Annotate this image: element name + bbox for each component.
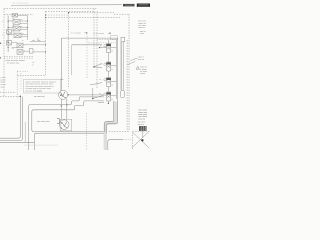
wire bus y12.7 [69,12,115,14]
svg-text:xxxx xx: xxxx xx [138,118,145,120]
wire K4 out [8,34,27,36]
node X center dot [141,139,143,141]
svg-text:xxxx xx: xxxx xx [138,27,145,29]
node left wire junctions [8,20,28,48]
wire from small box [33,51,46,53]
wire right vertical x117.7 [117,38,119,101]
wire RL4 bottom stub [107,101,109,104]
wire solid x61.6 [61,38,63,90]
wire K8 out [12,48,30,52]
svg-text:xx: xx [111,84,113,86]
relay K6 [7,41,12,45]
svg-text:xx: xx [111,51,113,53]
symbol diagonal X [132,132,149,148]
title text dark right [123,4,135,7]
wire K1 out [18,14,28,16]
wire short y102.4 [98,101,104,103]
svg-text:xx: xx [99,93,101,95]
wire dashed bottom of relay block [4,57,33,59]
wire staircase inner [34,101,104,110]
wire elbow B [0,97,23,141]
wire left box right edge x45.6 [45,11,47,75]
svg-text:xx: xx [111,99,113,101]
wire band fill [105,102,115,151]
node tick y79 [60,78,64,80]
svg-text:xx: xx [13,25,15,27]
wire solid y44.8 [72,44,102,46]
label small box [111,36,118,40]
wire dashed x127 [126,40,128,131]
wire solid x71.7 [71,45,73,75]
svg-text:xx: xx [21,26,23,28]
wire staircase outer [31,97,104,105]
label note triangle leader [127,61,135,64]
bracket mark [57,119,59,124]
svg-text:x x x xxxxx: x x x xxxxx [95,33,105,35]
wire second bottom line [34,133,106,150]
svg-text:xxx xxxx xxxx: xxx xxxx xxxx [37,121,51,123]
relay K8 [17,50,23,55]
node bus junctions x45.6 [45,14,46,52]
wire K2 out [8,21,27,23]
wire left frame x4 [3,9,5,96]
label relay block marks [2,18,25,52]
wire x92.8 short [92,88,94,99]
wire staircase outer left edge [29,104,31,150]
node junction x20.4 y96.3 [20,96,21,97]
wire bus y15 [46,14,68,16]
label note leader curve [131,58,138,61]
wire dashed y92 [0,91,16,93]
wire dashed x97 [96,11,98,88]
svg-text:xx: xx [22,33,24,35]
wire diagonal fan [90,63,104,98]
connector J1 dark [139,126,147,131]
svg-text:xx: xx [12,48,14,50]
svg-text:xx: xx [13,32,15,34]
connector small box top right [121,37,125,42]
wire dashed y42.9 [88,42,116,44]
wire Q1 collector to chain [68,94,104,96]
wire dashed corner x17 [17,71,28,99]
wire short vertical x38 [37,38,39,42]
svg-text:xx xxxx xxx: xx xxxx xxx [7,63,20,65]
motor M1 box [59,119,71,131]
wire dashed x132.6 [132,132,134,150]
wire J1 stub [142,131,144,138]
wire dashed x129 [128,14,130,131]
wire RL4 stubs [108,87,116,96]
relay RL4 [104,92,111,101]
wire bus y17.6 [46,17,120,19]
relay K1 top small box [12,14,18,17]
wire top title rule [11,4,122,7]
wire K7 out [12,43,46,45]
svg-text:xx: xx [22,40,24,42]
wire dashed y131.4 bottom [109,130,150,132]
wire bus y11.2 [46,10,94,12]
wire dashed x21 [20,73,22,90]
wire left vertical x8.1 [7,16,9,53]
node left edge specks [0,43,1,59]
relay K3 [13,26,20,31]
svg-text:x x x xxxxx: x x x xxxxx [71,33,81,35]
svg-text:xx: xx [111,69,113,71]
wire x25 vertical [24,122,26,142]
wire faint y145 [24,144,59,146]
relay RL2 [104,62,111,71]
svg-text:xxx xx: xxx xx [138,59,144,61]
wire K3 out [8,27,27,29]
node Q1 junctions [61,94,69,106]
node bus junction x68.5 [68,12,69,13]
relay RL3 [104,78,111,87]
svg-text:xxxxx: xxxxx [140,73,145,75]
wire y41.3 with bumps [30,40,46,41]
node fan junctions [92,66,95,99]
wire solid y38 [62,37,118,39]
svg-text:xx: xx [99,79,101,81]
node M1 dots [61,122,62,128]
wire dashed x87 [86,34,89,151]
svg-text:xxxxx x: xxxxx x [138,124,145,126]
relay K5 [7,30,12,34]
relay K2 [13,20,20,25]
svg-text:xx xxxx xxx: xx xxxx xxx [34,96,45,98]
symbol note triangle [136,66,139,69]
wire RL3 stubs [108,71,116,81]
wire elbow A [0,97,20,139]
svg-text:xxxx: xxxx [0,86,4,88]
wire dashed x94 [93,9,95,67]
wire bottom hook [108,140,123,150]
wire inner box [32,110,105,150]
svg-text:xx: xx [13,18,15,20]
relay RL1 [104,44,111,53]
wire collector x27.4 [26,15,28,40]
wire band outer [106,101,118,133]
connector small box right [29,49,33,53]
wire dashed y39.7 [97,39,116,41]
wire long bottom horizontal [0,141,34,143]
wire bus y8.5 [4,8,97,10]
wire vertical pair x121.7 x123.2 [122,42,124,91]
wire RL1 stubs [100,40,117,48]
wire left box bottom y75.6 [17,75,45,77]
wire Q1 to Q2 [61,105,67,119]
relay K7 [17,43,23,48]
wire dashed y96 [0,95,20,97]
svg-text:xxxx: xxxx [140,33,144,35]
note text box [24,79,61,93]
svg-text:xxx x xxxxxx xxxx: xxx x xxxxxx xxxx [12,3,29,5]
wire hook extension [123,139,133,141]
connector loop box [121,90,125,97]
wire dashed x68.5 [68,13,70,89]
wire band inner [104,101,113,132]
svg-text:xx: xx [100,46,102,48]
relay K4 [14,33,21,38]
wire RL2 stubs [108,53,116,66]
transistor Q1 [59,90,68,106]
svg-text:xx: xx [32,65,34,67]
svg-text:xxxx xx xxxx xxxxx: xxxx xx xxxx xxxxx [26,91,43,93]
wire right vertical x116.3 [115,40,117,99]
wire bus y14.2 [4,13,129,15]
